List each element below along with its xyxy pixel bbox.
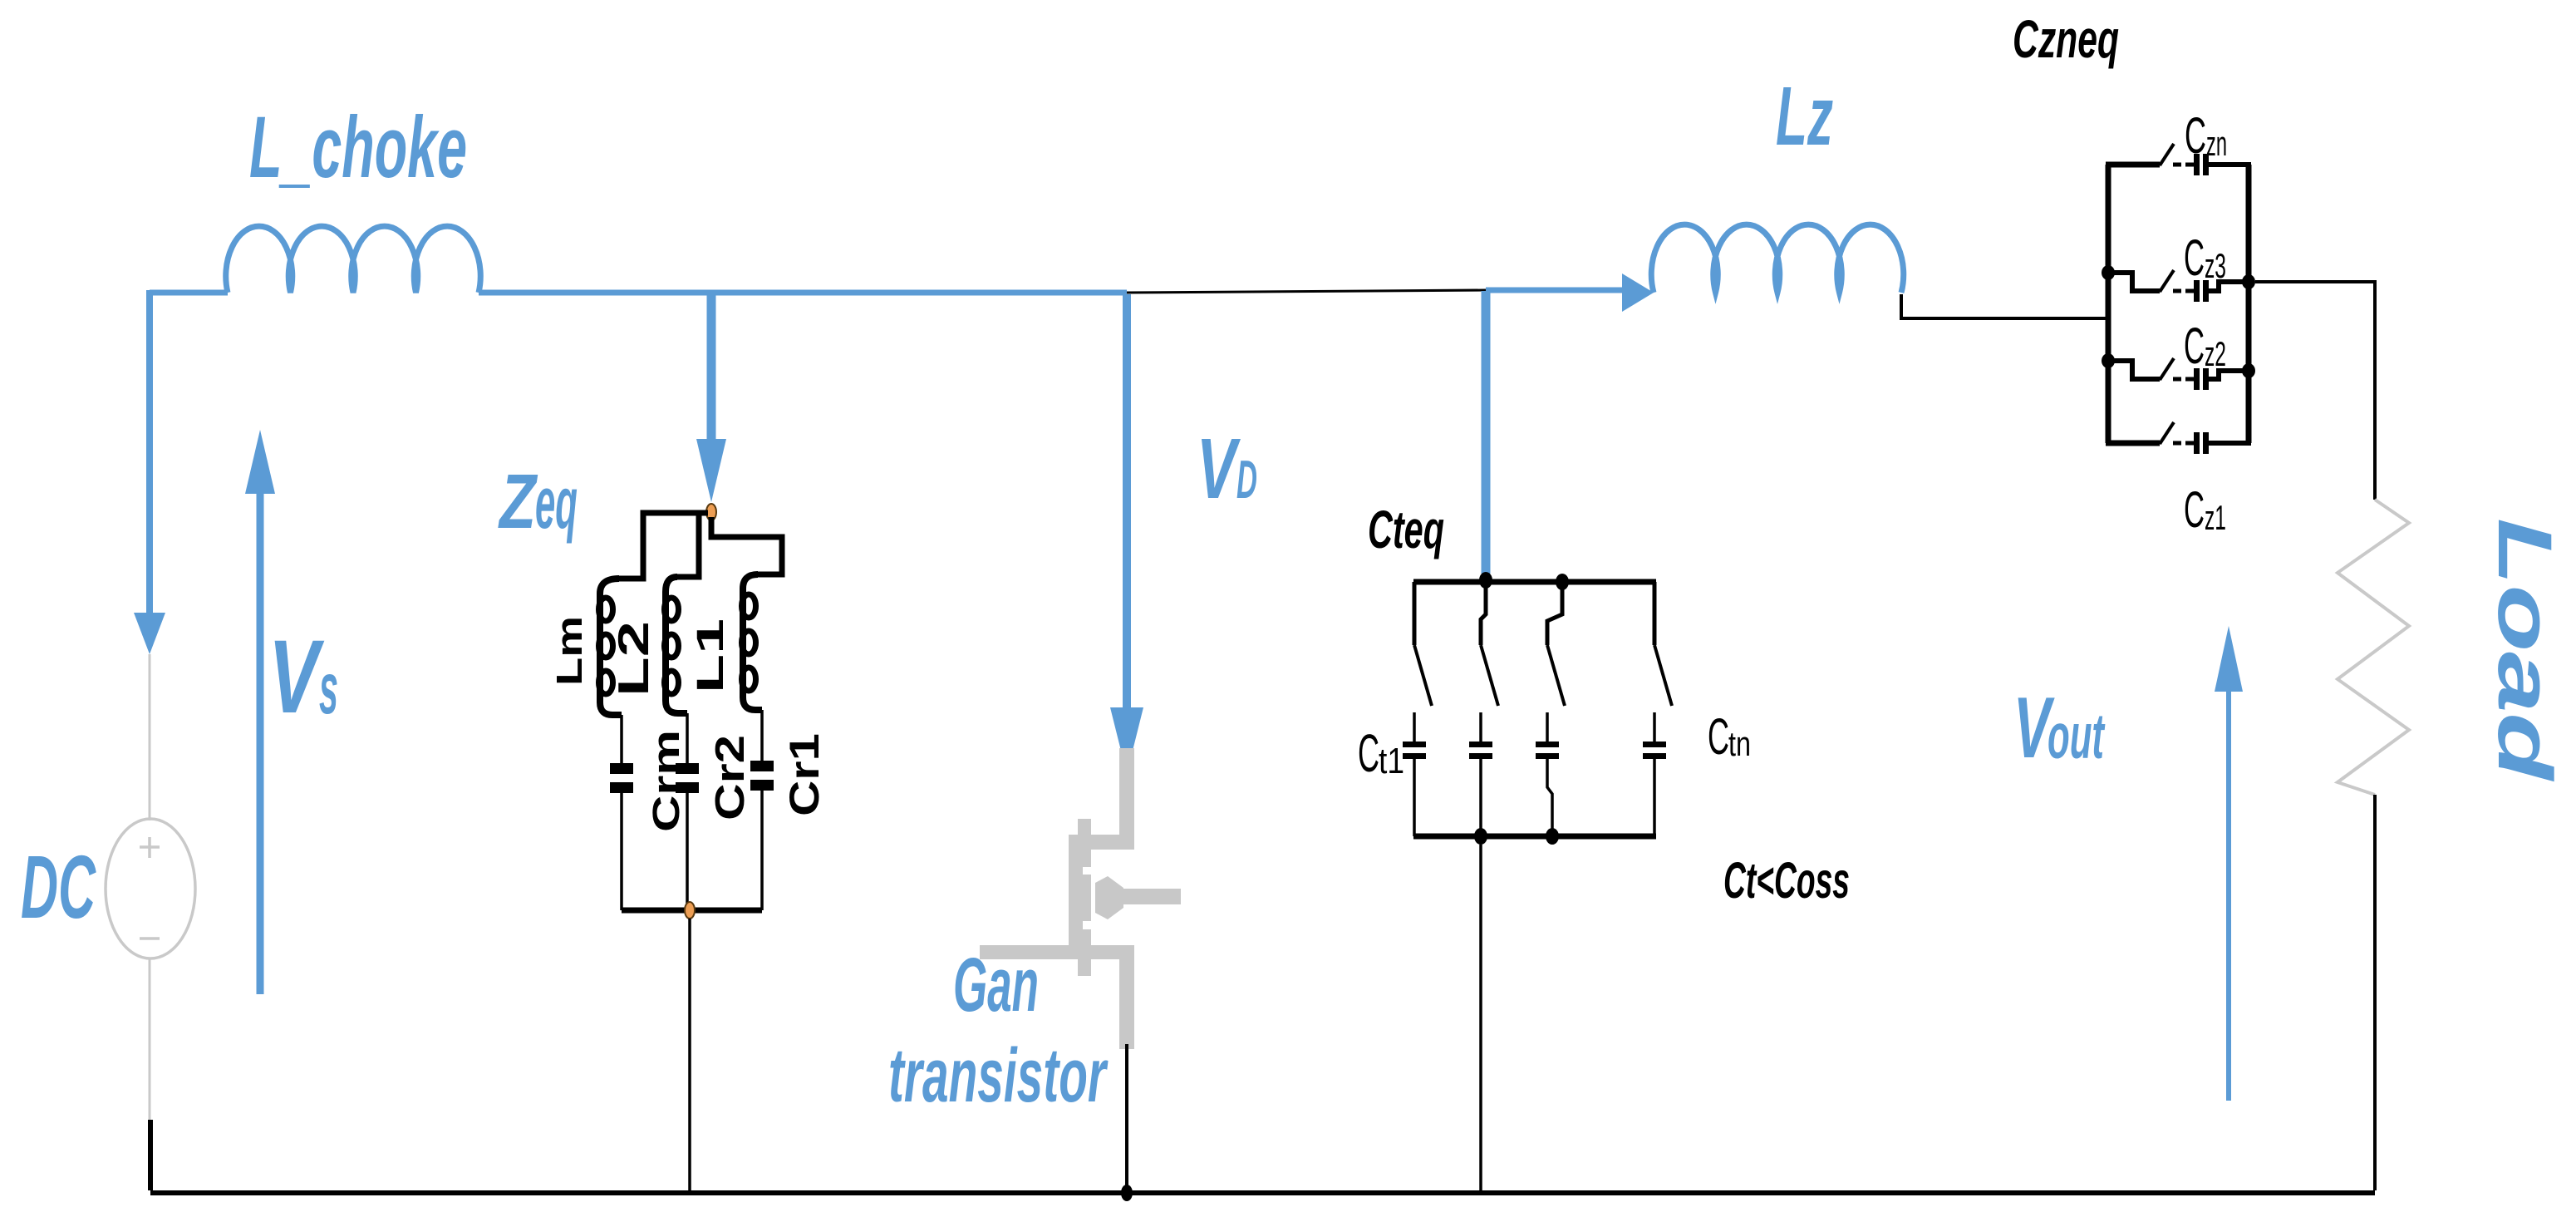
wire: gray lead DC bottom [149, 958, 151, 1120]
node: Czneq right dot row Cz3 [2242, 274, 2255, 289]
switch+capacitor Cteq branch 2 [1481, 586, 1498, 836]
svg-text:V: V [268, 619, 325, 735]
svg-text:C: C [2184, 481, 2205, 538]
wire: Zeq node to Lm branch [619, 513, 708, 579]
label Vs [268, 619, 338, 735]
inductor L1 [742, 574, 763, 710]
node: Cteq bottom dot 1 [1474, 828, 1487, 845]
capacitor (Zeq branch 2) [676, 763, 699, 793]
inductor L2 [665, 577, 688, 713]
wire: Czneq output to load [2255, 282, 2375, 500]
node: Cteq bottom dot 2 [1546, 828, 1559, 845]
svg-text:Cr2: Cr2 [708, 735, 753, 820]
wire: left vertical blue with down arrow [146, 290, 153, 613]
svg-text:transistor: transistor [888, 1033, 1109, 1118]
transistor Q1 GaN (gray symbol) [980, 748, 1181, 1049]
svg-text:Czneq: Czneq [2013, 9, 2119, 69]
wire: Cteq top rail [1413, 579, 1656, 585]
wire: cap3 down lead [760, 791, 764, 910]
svg-text:out: out [2048, 701, 2106, 772]
wire: load bottom to bus [2373, 795, 2377, 1190]
svg-text:V: V [1197, 421, 1241, 516]
switch+capacitor Czn row [2106, 144, 2251, 165]
wire: black lead to bottom bus left corner [148, 1120, 153, 1190]
node: Cteq top feed dot [1479, 572, 1492, 589]
svg-text:Ct<Coss: Ct<Coss [1723, 852, 1850, 909]
svg-text:s: s [319, 647, 338, 729]
label Gan transistor [888, 943, 1109, 1118]
label Czn [2185, 107, 2227, 164]
svg-text:Cr1: Cr1 [781, 733, 828, 816]
arrow Vs [245, 430, 275, 994]
svg-text:C: C [1358, 723, 1379, 783]
resistor Load (gray zigzag) [2338, 500, 2409, 795]
label Zeq [498, 458, 578, 544]
wire: cap2 down lead [686, 793, 689, 910]
wire: Czneq right rail [2246, 165, 2252, 443]
svg-text:C: C [2185, 107, 2206, 164]
wire: Czneq left rail [2106, 165, 2111, 443]
wire: L2 to cap2 [686, 713, 689, 763]
node: transistor-bus junction [1121, 1185, 1133, 1201]
switch+capacitor Cteq branch 3 [1547, 586, 1565, 836]
wire: Cteq to bottom bus [1479, 845, 1482, 1191]
label Ct1 [1358, 723, 1404, 783]
node: Czneq left dot row Cz3 [2102, 265, 2115, 280]
wire: Cteq feed blue [1482, 291, 1491, 574]
svg-text:tn: tn [1728, 724, 1751, 763]
arrow: Zeq feed blue down arrow [696, 294, 726, 502]
wire: Lm to Crm cap [620, 715, 623, 763]
wire: Zeq node to L2 branch [677, 513, 699, 577]
wire: L1 to cap3 [760, 710, 764, 761]
svg-text:Lm: Lm [549, 616, 590, 686]
switch+capacitor Ct1 branch [1414, 582, 1432, 836]
wire: Zeq bottom rail [622, 908, 762, 914]
wire: Zeq to bottom bus [688, 919, 691, 1191]
svg-text:Crm: Crm [645, 730, 687, 832]
svg-text:C: C [1708, 708, 1729, 765]
svg-text:zn: zn [2206, 124, 2227, 163]
inductor L_choke [226, 226, 481, 293]
source DC ellipse [106, 819, 195, 958]
label VD [1197, 421, 1257, 516]
label Cz1 [2184, 481, 2226, 538]
svg-text:Cteq: Cteq [1368, 500, 1444, 559]
capacitor (Zeq branch 3) [750, 761, 774, 791]
svg-text:Lz: Lz [1776, 70, 1833, 163]
arrowhead: left down arrow [134, 613, 165, 654]
svg-text:DC: DC [21, 836, 96, 937]
DC plus sign [140, 837, 160, 858]
node: Zeq top (orange) [706, 504, 716, 520]
svg-text:Load: Load [2482, 518, 2567, 782]
inductor Lz [1651, 224, 1903, 293]
wire: Lz to Czneq left rail [1901, 294, 2108, 318]
wire: Cteq bottom rail [1413, 834, 1656, 840]
wire: top bus blue (L_choke to VD node) [479, 290, 1127, 296]
node: Zeq bottom (orange) [685, 902, 695, 919]
svg-text:L1: L1 [689, 618, 731, 693]
svg-text:eq: eq [535, 461, 578, 544]
wire: Zeq node to L1 branch [711, 517, 782, 574]
svg-text:C: C [2184, 229, 2205, 286]
label Cz2 [2184, 318, 2226, 374]
wire: cap1 down lead [620, 793, 623, 910]
node: Czneq right dot row Cz2 [2242, 363, 2255, 378]
svg-text:z2: z2 [2205, 334, 2226, 373]
svg-text:L2: L2 [610, 621, 658, 697]
switch+capacitor Cz2 row [2108, 358, 2249, 380]
svg-text:z1: z1 [2205, 498, 2226, 537]
node: Czneq left dot row Cz2 [2102, 353, 2115, 368]
inductor Lm [599, 579, 622, 715]
wire: top bus black thin (VD node to Cteq node) [1127, 290, 1486, 293]
arrow Vout [2215, 626, 2243, 1101]
arrow VD [1110, 294, 1143, 774]
svg-text:z3: z3 [2205, 246, 2226, 285]
label Vout [2013, 680, 2106, 776]
DC minus sign [140, 937, 160, 940]
svg-text:D: D [1236, 449, 1257, 510]
wire: transistor source to bottom bus [1125, 1044, 1128, 1191]
svg-text:t1: t1 [1379, 741, 1404, 781]
node: Cteq top rail dot 2 [1556, 574, 1569, 590]
capacitor (Zeq branch 1) [610, 763, 633, 793]
switch+capacitor Ctn branch [1654, 582, 1672, 836]
svg-text:Gan: Gan [953, 943, 1039, 1027]
wire: bottom bus [150, 1190, 2375, 1195]
svg-text:Z: Z [498, 458, 538, 544]
wire: top bus blue left (DC corner to L_choke) [150, 290, 228, 296]
wire: gray lead DC top [149, 654, 151, 820]
switch+capacitor Cz3 row [2108, 270, 2249, 292]
svg-text:L_choke: L_choke [249, 99, 467, 196]
switch+capacitor Cz1 row [2106, 422, 2251, 444]
wire: blue horizontal to Lz with right arrow [1486, 273, 1654, 312]
transistor gate notches (white) [1083, 867, 1092, 929]
svg-text:C: C [2184, 318, 2205, 374]
label Cz3 [2184, 229, 2226, 286]
label Ctn [1708, 708, 1751, 765]
